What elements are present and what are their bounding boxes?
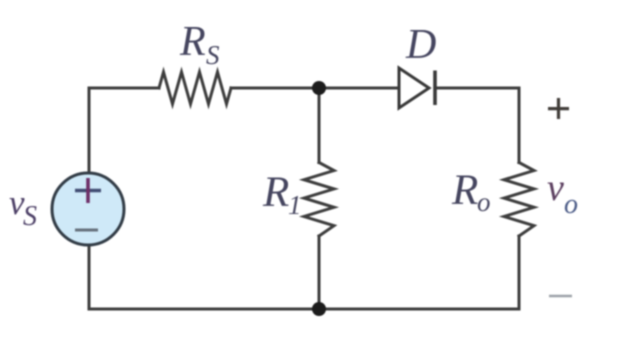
svg-text:R: R [179, 19, 206, 65]
svg-text:S: S [206, 40, 220, 70]
svg-text:D: D [405, 22, 436, 68]
svg-text:R: R [451, 167, 478, 214]
svg-text:S: S [23, 201, 37, 232]
svg-text:o: o [564, 189, 578, 220]
svg-text:v: v [547, 167, 564, 209]
svg-text:R: R [262, 169, 289, 216]
svg-text:1: 1 [288, 190, 302, 220]
svg-text:o: o [477, 187, 491, 217]
